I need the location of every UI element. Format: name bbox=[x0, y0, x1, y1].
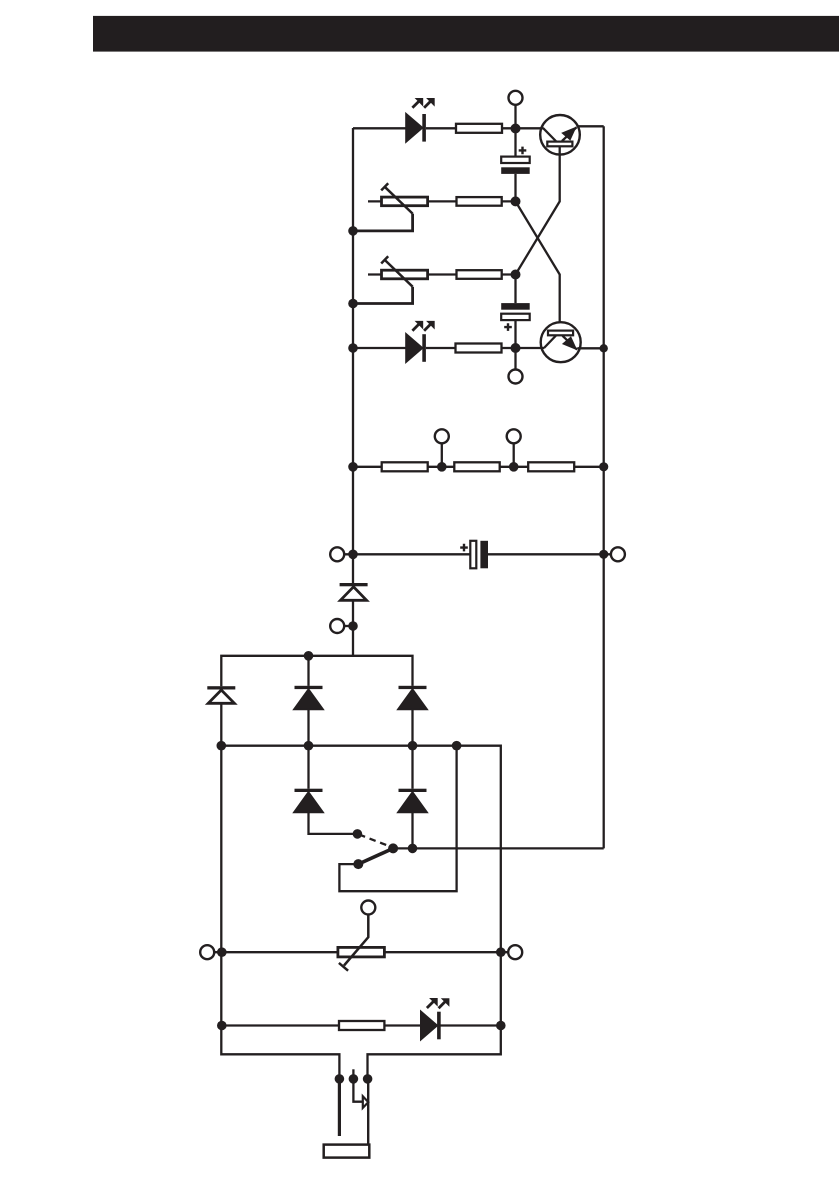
wire terminal X3 stub bbox=[441, 443, 443, 466]
node LED3 row right bbox=[496, 1021, 506, 1031]
node bridge mid U return bbox=[452, 741, 462, 751]
capacitor C1 electrolytic bbox=[501, 147, 530, 174]
wire row5 resistor chain bbox=[353, 466, 604, 468]
resistor R1 bbox=[456, 124, 502, 133]
transistor Q2 bbox=[516, 322, 604, 362]
LED D7 with resistor row1 bbox=[406, 98, 435, 142]
trimmer P2 bbox=[381, 256, 427, 286]
LED D9 bottom bbox=[421, 998, 450, 1040]
wire bridge mid rail and right drop column bbox=[221, 746, 501, 1079]
wire trimmer P2 row stubs bbox=[368, 273, 516, 275]
wire bridge mid stub D2 bbox=[307, 656, 309, 686]
resistor R2 bbox=[457, 197, 502, 206]
connector plug J1 bbox=[324, 1069, 373, 1157]
node bridge top mid bbox=[304, 651, 314, 661]
wire Q1 base cross-couple to node row3 bbox=[516, 146, 560, 274]
diode D2 bridge mid top bbox=[294, 686, 323, 710]
terminal X10 trimmer wiper bbox=[361, 901, 375, 915]
wire left rail upper (V+ rail x=353) bbox=[352, 128, 354, 583]
wire below D1 bbox=[220, 703, 222, 745]
node bridge mid D4 bbox=[304, 741, 314, 751]
terminal X4 bbox=[507, 429, 521, 443]
wire left rail lower bbox=[352, 601, 354, 656]
wire bottom terminal row left bbox=[214, 951, 338, 953]
terminal X5 bbox=[509, 370, 523, 384]
wire trimmer P1 row stubs bbox=[368, 200, 516, 202]
node bottom row right bbox=[496, 947, 506, 957]
terminal X3 bbox=[435, 429, 449, 443]
wire diode D5 column to switch pole bbox=[411, 746, 413, 849]
LED D8 row4 bbox=[406, 321, 435, 362]
node row5 X3 bbox=[437, 462, 447, 472]
trimmer P3 bbox=[338, 915, 385, 971]
terminal X8 right battery bbox=[611, 547, 625, 561]
wire terminal X4 stub bbox=[513, 443, 515, 466]
node bridge mid D5 bbox=[408, 741, 418, 751]
terminal X6 left battery bbox=[330, 547, 344, 561]
wire terminal X5 stub bbox=[514, 348, 516, 369]
resistor R5 bbox=[382, 462, 428, 471]
terminal X1 bbox=[509, 91, 523, 105]
resistor R6 bbox=[454, 462, 499, 471]
diode D6 on left rail bbox=[340, 583, 368, 600]
wire trimmer P2 return elbow bbox=[353, 287, 413, 304]
wire right rail x=603 bbox=[603, 126, 605, 848]
wire switch throw2 U loop bbox=[339, 746, 456, 892]
resistor R4 bbox=[456, 344, 502, 353]
wire below D2 bbox=[307, 710, 309, 746]
node row1 cap top bbox=[511, 124, 521, 134]
node X7 rail bbox=[348, 621, 358, 631]
node row5 right rail bbox=[599, 462, 608, 471]
node row4 cap bottom bbox=[511, 343, 521, 353]
wire switch pole to right rail bbox=[393, 847, 604, 849]
wire cap C2 stubs bbox=[514, 275, 516, 349]
wire battery row right bbox=[488, 553, 611, 555]
node row4 right rail bbox=[600, 344, 608, 352]
node rail trimmer P2 return bbox=[348, 299, 358, 309]
wire battery row left bbox=[344, 553, 470, 555]
node rail trimmer P1 return bbox=[348, 226, 358, 236]
diode D4 bridge left bottom bbox=[294, 789, 323, 813]
wire below D3 bbox=[411, 710, 413, 746]
switch S1 bbox=[353, 829, 399, 869]
wire row4 LED2 branch bbox=[353, 347, 517, 349]
node row3 right bbox=[511, 270, 521, 280]
node row5 X4 bbox=[509, 462, 519, 472]
wire LED3 row bbox=[221, 1024, 501, 1026]
resistor R3 bbox=[457, 270, 502, 279]
node bottom row left bbox=[217, 947, 227, 957]
wire terminal X1 stub bbox=[514, 105, 516, 128]
terminal X7 bbox=[330, 619, 344, 633]
capacitor C2 electrolytic bbox=[501, 303, 530, 331]
transistor Q1 bbox=[516, 115, 604, 155]
wire left drop column bbox=[221, 746, 339, 1079]
resistor R7 bbox=[528, 462, 574, 471]
wire terminal X7 stub bbox=[344, 625, 354, 627]
resistor R8 bbox=[339, 1021, 384, 1030]
terminal X9 bottom left bbox=[200, 945, 214, 959]
node rail row4 left bbox=[348, 343, 358, 353]
node LED3 row left bbox=[217, 1021, 227, 1031]
wire bridge top rail bbox=[221, 656, 412, 687]
node row2 right bbox=[511, 196, 521, 206]
title banner bar bbox=[93, 16, 839, 52]
terminal X11 bottom right bbox=[508, 945, 522, 959]
capacitor C3 electrolytic battery row bbox=[460, 541, 488, 569]
wire node row2 cross-couple to Q2 base bbox=[516, 201, 560, 330]
wire cap C1 stubs bbox=[514, 129, 516, 202]
node bridge mid left bbox=[217, 741, 227, 751]
wire bottom terminal row right bbox=[384, 951, 508, 953]
trimmer P1 bbox=[381, 183, 427, 213]
wire diode D4 column to switch throw bbox=[309, 746, 358, 834]
node switch pole rail bbox=[408, 844, 418, 854]
node battery left bbox=[348, 550, 358, 560]
diode D5 bridge right bottom bbox=[398, 789, 427, 813]
wire row1 LED1 branch bbox=[353, 127, 517, 129]
diode D3 bridge right top bbox=[398, 686, 427, 710]
diode D1 bridge left bbox=[207, 686, 235, 703]
wire trimmer P1 return elbow bbox=[353, 214, 413, 231]
node row5 left rail bbox=[348, 462, 358, 472]
node battery right bbox=[599, 550, 608, 559]
